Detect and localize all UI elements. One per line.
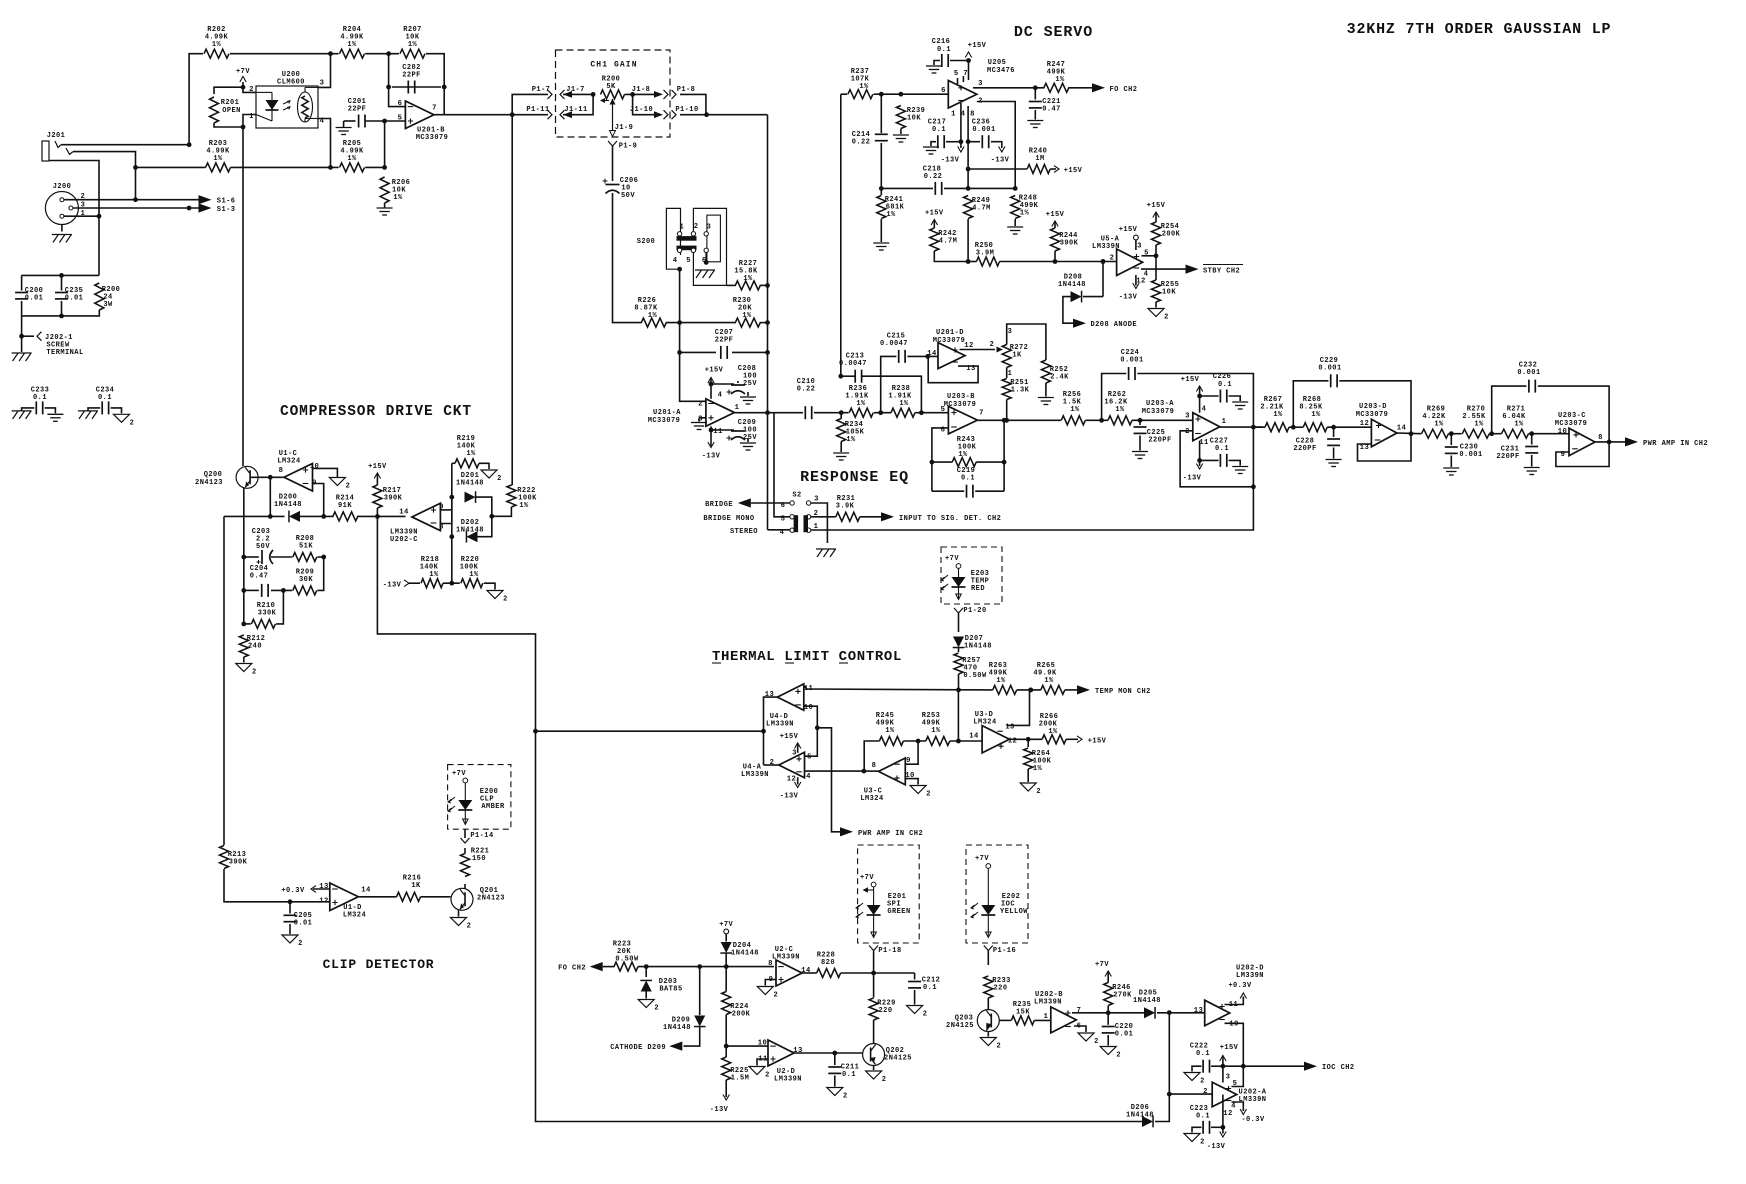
svg-text:1M: 1M	[1035, 155, 1044, 163]
wire to C228	[1333, 427, 1335, 437]
junction	[862, 769, 867, 774]
wire to U2-D	[726, 1045, 768, 1047]
wire C226 to ground	[1229, 396, 1241, 401]
op-amp U202-A LM339N	[1203, 1074, 1267, 1119]
svg-text:-13V: -13V	[941, 157, 960, 165]
capacitor C233 labels	[31, 387, 50, 403]
svg-text:0.1: 0.1	[932, 126, 946, 134]
junction	[959, 139, 964, 144]
ground symbol (chassis ground at S2)	[816, 549, 836, 557]
pin J1-10	[630, 106, 653, 114]
svg-text:3.9M: 3.9M	[976, 250, 995, 258]
junction	[1053, 259, 1058, 264]
+15V terminal U5-A	[1134, 235, 1139, 240]
capacitor C201	[348, 98, 367, 128]
wire R224 to R225	[725, 1015, 727, 1058]
wire C203 to R208	[271, 556, 292, 558]
svg-text:390K: 390K	[384, 495, 403, 503]
junction	[442, 85, 447, 90]
svg-text:+15V: +15V	[1181, 376, 1200, 384]
svg-text:+7V: +7V	[719, 921, 733, 929]
ground symbol (analog ground 2 at R255)	[1148, 309, 1169, 322]
svg-text:+15V: +15V	[1119, 226, 1138, 234]
transistor Q202 2N4125	[863, 1044, 912, 1066]
wire C234 left	[88, 408, 100, 411]
wire to J202 ground	[21, 316, 23, 352]
capacitor C234	[102, 401, 108, 414]
svg-text:2: 2	[1036, 788, 1041, 796]
open arrow -13V R218	[404, 580, 409, 587]
wire U1-C +in to ground	[313, 468, 338, 477]
junction	[510, 112, 515, 117]
op-amp U4-A LM339N	[741, 750, 812, 784]
svg-text:3: 3	[320, 80, 325, 88]
svg-text:D208 ANODE: D208 ANODE	[1091, 321, 1138, 329]
ground symbol (chassis ground at J200)	[52, 235, 72, 243]
junction	[1241, 1064, 1246, 1069]
junction	[533, 729, 538, 734]
switch S200	[637, 208, 727, 285]
svg-text:2N4123: 2N4123	[195, 479, 223, 487]
svg-text:2: 2	[923, 1011, 928, 1019]
svg-text:1%: 1%	[958, 451, 968, 459]
ground symbol (analog ground 2 at C234)	[114, 414, 135, 427]
wire U202-B out to D205	[1072, 1012, 1144, 1014]
wire U2-D +in to ground	[757, 1059, 768, 1066]
svg-text:1: 1	[1008, 370, 1013, 378]
wire R249 to row	[967, 219, 969, 262]
svg-text:240: 240	[248, 643, 262, 651]
svg-text:LM324: LM324	[277, 458, 300, 466]
svg-text:2: 2	[1110, 255, 1115, 263]
resistor R246	[1104, 983, 1132, 1006]
resistor R271	[1502, 406, 1529, 439]
svg-text:0.22: 0.22	[852, 139, 871, 147]
junction	[919, 410, 924, 415]
wire to C230	[1450, 434, 1452, 445]
svg-text:0.01: 0.01	[65, 295, 84, 303]
wire R226 to R230	[666, 322, 736, 324]
svg-text:PWR AMP IN CH2: PWR AMP IN CH2	[858, 830, 923, 838]
transistor Q203 2N4125	[946, 1010, 999, 1032]
svg-text:+15V: +15V	[705, 367, 724, 375]
svg-text:+7V: +7V	[975, 855, 989, 863]
junction	[709, 428, 714, 433]
svg-text:MC33079: MC33079	[933, 337, 966, 345]
resistor R250	[975, 242, 1000, 266]
-13V pin U201-A	[708, 442, 714, 448]
wire C217 row	[946, 141, 961, 143]
svg-text:0.01: 0.01	[1115, 1031, 1134, 1039]
svg-text:2: 2	[990, 341, 995, 349]
junction	[966, 139, 971, 144]
resistor R204	[340, 26, 365, 58]
wire Q203 emitter to ground	[987, 1032, 989, 1037]
ground symbol (chassis ground at J202)	[12, 353, 32, 361]
wire long route compressor to bottom	[377, 516, 1142, 1121]
net +0.3V (U1-D)	[281, 887, 305, 895]
svg-text:P1-8: P1-8	[677, 86, 696, 94]
svg-text:1: 1	[249, 113, 254, 121]
wire J201 tip to node	[61, 144, 189, 146]
wire U202-A pin4 to -0.3V	[1232, 1102, 1244, 1111]
svg-text:0.1: 0.1	[1196, 1113, 1210, 1121]
junction	[724, 964, 729, 969]
wire U4-A -in to U3-C	[805, 770, 864, 772]
wire to R201 top	[214, 87, 243, 94]
wire U4-D -in down	[804, 706, 818, 728]
resistor R221	[461, 848, 490, 877]
capacitor C219	[957, 467, 976, 498]
svg-text:+15V: +15V	[368, 463, 387, 471]
wire to C207	[680, 351, 716, 353]
capacitor C235	[55, 287, 83, 303]
junction	[1331, 425, 1336, 430]
svg-text:+7V: +7V	[1095, 961, 1109, 969]
net +15V (U5-A)	[1119, 226, 1138, 234]
junction	[1106, 1010, 1111, 1015]
svg-text:MC3476: MC3476	[987, 67, 1015, 75]
svg-text:14: 14	[399, 509, 409, 517]
svg-text:2: 2	[467, 923, 472, 931]
wire to C204	[244, 589, 259, 591]
arrow J1-7	[563, 91, 572, 98]
resistor R200	[95, 283, 121, 310]
svg-text:1: 1	[1044, 1013, 1049, 1021]
wire -13V stub	[960, 142, 962, 148]
svg-text:2.4K: 2.4K	[1050, 374, 1069, 382]
svg-text:LM339N: LM339N	[741, 771, 769, 779]
junction	[765, 350, 770, 355]
+15V pin R254	[1153, 212, 1159, 218]
wiper arrow R272	[997, 347, 1004, 353]
wire R220 to ground	[484, 583, 495, 589]
svg-text:Q200: Q200	[204, 471, 223, 479]
svg-text:2: 2	[698, 401, 703, 409]
capacitor C214	[852, 131, 888, 147]
wire to R241	[880, 188, 882, 195]
wire P1-18 to R228 node	[873, 951, 875, 974]
wire C216 to ground	[934, 61, 940, 66]
connector P1-7	[548, 90, 553, 99]
svg-text:3: 3	[1008, 328, 1013, 336]
net +7V (D204)	[719, 921, 733, 929]
junction	[133, 165, 138, 170]
capacitor C204	[250, 565, 269, 597]
svg-text:1%: 1%	[885, 727, 895, 735]
wire pot right to J1-8	[625, 93, 657, 95]
wire R245 left leg	[864, 741, 880, 771]
svg-text:220PF: 220PF	[1148, 437, 1171, 445]
resistor R201	[210, 97, 241, 123]
svg-text:THERMAL LIMIT CONTROL: THERMAL LIMIT CONTROL	[712, 649, 902, 665]
wire U3-C +in to ground	[905, 779, 918, 785]
wire pin4 to C217	[960, 103, 962, 142]
pin J1-11	[564, 106, 587, 114]
svg-text:1%: 1%	[648, 312, 658, 320]
wire C232 loop left	[1492, 386, 1527, 434]
svg-text:LM339N: LM339N	[766, 721, 794, 729]
net +15V (R242)	[925, 210, 944, 218]
wire opto pin3 up to rail	[318, 54, 331, 88]
svg-text:1: 1	[814, 523, 819, 531]
wire U3-D output	[1009, 738, 1042, 740]
svg-text:C226: C226	[1213, 373, 1232, 381]
op-amp U202-B LM339N	[1034, 991, 1081, 1033]
junction	[1033, 85, 1038, 90]
svg-text:1%: 1%	[393, 194, 403, 202]
svg-text:1%: 1%	[466, 450, 476, 458]
svg-text:5: 5	[686, 257, 691, 265]
pin J1-9	[615, 124, 634, 132]
svg-text:LM324: LM324	[860, 795, 883, 803]
junction	[375, 514, 380, 519]
svg-text:2: 2	[765, 1072, 770, 1080]
op-amp U205 MC3476	[941, 59, 1015, 119]
capacitor C202	[402, 64, 421, 94]
junction	[97, 214, 102, 219]
wire +15V to U5-A	[1135, 240, 1137, 250]
svg-text:1%: 1%	[996, 677, 1006, 685]
wire to J1-10	[633, 94, 656, 114]
junction	[966, 186, 971, 191]
svg-text:150: 150	[472, 855, 486, 863]
wire R228 to C212	[841, 972, 915, 974]
svg-text:2: 2	[249, 86, 254, 94]
junction	[268, 475, 273, 480]
ground symbol (analog ground 2 at C212)	[907, 1006, 928, 1019]
wire long vertical to R213	[223, 516, 225, 845]
svg-text:2: 2	[252, 669, 257, 677]
junction	[321, 514, 326, 519]
junction	[1002, 418, 1007, 423]
svg-text:DC SERVO: DC SERVO	[1014, 24, 1093, 41]
svg-text:0.001: 0.001	[972, 126, 995, 134]
wire U203-D feedback loop	[1358, 434, 1412, 461]
wire pin5 to R254	[1142, 255, 1157, 257]
junction	[1197, 458, 1202, 463]
wire pin1 down	[967, 106, 969, 188]
svg-text:0.50W: 0.50W	[963, 672, 987, 680]
op-amp U203-D MC33079	[1356, 403, 1407, 452]
svg-text:50V: 50V	[621, 192, 635, 200]
svg-text:-13V: -13V	[991, 157, 1010, 165]
arrow PWR AMP IN CH2	[1625, 437, 1638, 446]
capacitor C226	[1213, 373, 1232, 403]
junction	[449, 581, 454, 586]
net -13V (U201-A)	[702, 453, 721, 461]
wire U202-A pin5 up to IOC	[1232, 1066, 1244, 1086]
wire R268 to U203-D	[1327, 426, 1371, 428]
svg-text:COMPRESSOR DRIVE CKT: COMPRESSOR DRIVE CKT	[280, 404, 472, 420]
op-amp U202-C LM339N	[390, 503, 444, 544]
svg-text:0.47: 0.47	[250, 573, 269, 581]
junction	[956, 688, 961, 693]
wire U203-C feedback loop	[1556, 442, 1609, 467]
svg-text:0.001: 0.001	[1517, 369, 1540, 377]
wire U205 output	[973, 87, 1045, 89]
ground symbol (chassis ground at S200)	[695, 270, 715, 278]
svg-text:11: 11	[1199, 439, 1209, 447]
svg-text:0.22: 0.22	[797, 386, 816, 394]
svg-text:LM339N: LM339N	[774, 1076, 802, 1084]
wire P1-9 down to C206	[612, 146, 614, 181]
wire loop right rail	[1003, 420, 1005, 491]
capacitor C230	[1445, 444, 1483, 460]
svg-text:+15V: +15V	[968, 42, 987, 50]
junction	[1099, 418, 1104, 423]
wire R202 to R204	[230, 53, 339, 55]
wire U4-A to -13V	[797, 777, 799, 784]
ground symbol (analog ground 2 at R264)	[1020, 783, 1041, 796]
wire C214 to C218 row	[880, 143, 882, 188]
junction	[241, 588, 246, 593]
wire C227 to ground	[1229, 460, 1241, 465]
wire to R243	[932, 461, 952, 463]
pin P1-14	[470, 832, 493, 840]
svg-text:U202-C: U202-C	[390, 536, 418, 544]
wire C236 right	[991, 142, 1002, 148]
wire S200 pin4 down	[679, 269, 681, 352]
resistor R242	[930, 228, 958, 251]
svg-text:+15V: +15V	[925, 210, 944, 218]
connector P1-14	[461, 838, 470, 843]
svg-text:1: 1	[680, 224, 685, 232]
svg-text:2: 2	[1185, 428, 1190, 436]
svg-text:RED: RED	[971, 585, 985, 593]
svg-text:BRIDGE MONO: BRIDGE MONO	[703, 515, 754, 523]
ground symbol (earth at C233)	[47, 414, 63, 421]
wire EQ node to C210	[768, 412, 804, 414]
svg-text:YELLOW: YELLOW	[1000, 908, 1028, 916]
junction	[288, 899, 293, 904]
svg-text:2: 2	[1164, 314, 1169, 322]
wire left vertical to C213	[840, 94, 842, 376]
junction	[1026, 737, 1031, 742]
capacitor C236	[972, 119, 996, 149]
wire -13V from U201-A	[710, 426, 712, 446]
svg-text:+15V: +15V	[1046, 211, 1065, 219]
svg-text:MC33079: MC33079	[1142, 408, 1175, 416]
wire R272 to R251	[1006, 368, 1008, 379]
svg-text:3: 3	[707, 224, 712, 232]
svg-text:U203-A: U203-A	[1146, 400, 1174, 408]
wire P1-8 jog	[680, 94, 706, 114]
resistor R266	[1039, 713, 1066, 744]
wire R203 to R205	[230, 166, 338, 168]
resistor R269	[1422, 406, 1449, 439]
svg-text:RESPONSE EQ: RESPONSE EQ	[800, 469, 909, 486]
svg-text:+0.3V: +0.3V	[1228, 982, 1252, 990]
capacitor C228	[1293, 438, 1340, 454]
junction	[1607, 440, 1612, 445]
svg-text:15K: 15K	[1016, 1009, 1030, 1017]
junction	[956, 739, 961, 744]
wire C213 to R238 right	[862, 376, 922, 413]
junction	[328, 51, 333, 56]
svg-text:1.5M: 1.5M	[731, 1075, 750, 1083]
op-amp U3-D LM324	[969, 711, 1017, 753]
connector J1-8 exit	[664, 90, 669, 99]
diode D202 1N4148	[456, 519, 484, 543]
capacitor C209 100 25V (polarized)	[727, 419, 758, 442]
wire C233 left	[22, 408, 35, 411]
junction	[19, 334, 24, 339]
wire R229 to Q202	[873, 1020, 875, 1044]
resistor R217	[373, 485, 403, 508]
switch S2	[780, 492, 819, 538]
junction	[765, 283, 770, 288]
wire R246 to C220	[1107, 1006, 1109, 1025]
svg-text:1K: 1K	[1012, 352, 1022, 360]
wire S2 pin2 to R231	[811, 516, 836, 518]
svg-text:2: 2	[1094, 1038, 1099, 1046]
wire U203-A to -13V	[1199, 441, 1201, 466]
diode D200 1N4148	[274, 494, 302, 523]
op-amp U202-D LM339N	[1194, 965, 1264, 1029]
svg-text:1: 1	[735, 404, 740, 412]
svg-text:TERMINAL: TERMINAL	[46, 349, 83, 357]
wire Q200 emitter down	[243, 488, 245, 557]
wire row to U5-A	[1000, 261, 1117, 263]
wire R251 to output node	[1006, 400, 1008, 421]
wire U5-A output to STBY	[1141, 268, 1189, 270]
junction	[930, 460, 935, 465]
svg-text:14: 14	[969, 733, 979, 741]
svg-text:FO CH2: FO CH2	[558, 965, 586, 973]
svg-text:1%: 1%	[519, 502, 529, 510]
svg-text:22PF: 22PF	[715, 337, 734, 345]
svg-text:2: 2	[298, 940, 303, 948]
wire C215 to U201-D	[907, 355, 938, 357]
svg-text:2: 2	[882, 1076, 887, 1084]
arrow BRIDGE	[738, 498, 751, 507]
op-amp U203-B MC33079	[941, 393, 984, 435]
open arrow +15V R240	[1054, 166, 1059, 173]
wire C217 to ground	[931, 142, 936, 146]
svg-text:12: 12	[319, 898, 329, 906]
wire U203-B output to R256	[977, 419, 1061, 421]
wire inverting input column	[389, 54, 406, 107]
wire R204 to R207	[365, 53, 399, 55]
junction	[386, 85, 391, 90]
svg-text:1%: 1%	[347, 41, 357, 49]
svg-text:200K: 200K	[732, 1011, 751, 1019]
wire C200 row top	[22, 274, 99, 276]
ground symbol (earth at U201-A +input)	[691, 423, 707, 430]
svg-text:2: 2	[843, 1093, 848, 1101]
wire U4-D output down	[764, 697, 778, 765]
svg-text:MC33079: MC33079	[1356, 411, 1389, 419]
svg-text:2: 2	[773, 992, 778, 1000]
ground symbol (earth at C221)	[1027, 121, 1043, 128]
wire long feed from compressor	[536, 730, 764, 732]
wire S200 pin6 to ground	[705, 253, 707, 263]
svg-text:+15V: +15V	[1220, 1044, 1239, 1052]
junction	[449, 495, 454, 500]
wire R205 to node	[365, 166, 384, 168]
wire pin7 stub	[962, 76, 964, 82]
op-amp U203-C MC33079	[1555, 412, 1603, 459]
resistor R265	[1033, 662, 1064, 694]
wire R253 node up to TEMP row	[957, 690, 959, 741]
capacitor C208 100 25V (polarized)	[727, 365, 758, 395]
+15V pin U202-A	[1220, 1056, 1226, 1062]
ground symbol (earth at R241)	[873, 243, 889, 250]
junction	[761, 729, 766, 734]
ground symbol (analog ground 2 at R220)	[487, 591, 508, 604]
wire to C208	[711, 383, 734, 385]
